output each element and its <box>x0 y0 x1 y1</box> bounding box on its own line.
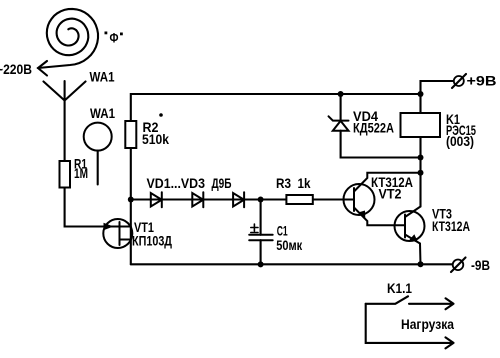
node VD4 top rail <box>338 91 344 97</box>
node VD4 bottom / relay <box>418 155 424 161</box>
sensor plate WA1 <box>84 123 112 151</box>
svg-text:VT2: VT2 <box>379 186 402 202</box>
diode VD1 <box>151 192 162 207</box>
arrow to ~220V <box>38 61 47 76</box>
wire bottom rail -9V <box>131 263 453 265</box>
svg-text:WA1: WA1 <box>90 69 115 85</box>
node A junction R2/diodes/VT1 <box>128 197 134 203</box>
node +9V rail corner <box>418 91 424 97</box>
svg-text:R3: R3 <box>276 175 291 191</box>
contact K1.1 <box>366 296 454 348</box>
svg-text:~220В: ~220В <box>0 61 32 77</box>
transistor VT2 <box>344 173 421 226</box>
wire R1 to VT1 gate <box>65 188 131 227</box>
svg-text:50мк: 50мк <box>276 237 303 253</box>
svg-text:КД522А: КД522А <box>353 120 394 136</box>
coil WA1 field spiral <box>38 9 98 68</box>
transistor VT3 <box>395 207 425 265</box>
wire R2 bottom to node A <box>130 148 132 200</box>
terminal +9V <box>421 74 467 94</box>
node C1 bottom <box>258 261 264 267</box>
transistor VT1 <box>103 219 132 248</box>
svg-text:1М: 1М <box>74 165 88 181</box>
svg-text:КП103Д: КП103Д <box>132 233 172 249</box>
svg-text:КТ312А: КТ312А <box>432 218 470 234</box>
quote marks of Ф label <box>105 32 108 35</box>
diode VD2 <box>192 192 203 207</box>
svg-text:Ф: Ф <box>110 30 119 46</box>
wire VD4 to top rail <box>340 94 342 121</box>
svg-text:+9В: +9В <box>467 73 497 89</box>
svg-text:510k: 510k <box>142 131 169 147</box>
resistor R1 <box>60 161 71 188</box>
svg-text:Нагрузка: Нагрузка <box>401 316 454 332</box>
svg-text:Д9Б: Д9Б <box>212 175 232 191</box>
wire top rail +9V <box>131 94 421 121</box>
svg-text:VD1...VD3: VD1...VD3 <box>147 175 206 191</box>
wire signal line node A to VT2 base <box>131 198 354 200</box>
capacitor C1 <box>249 200 273 265</box>
relay K1 coil <box>401 113 441 137</box>
wire VD4 branch <box>341 131 421 158</box>
wire relay branch vertical <box>419 94 421 207</box>
resistor R3 <box>286 195 312 204</box>
antenna WA1 symbol <box>44 81 86 161</box>
svg-text:WA1: WA1 <box>90 105 115 121</box>
wire below sensor plate <box>97 151 99 185</box>
wire VT1 drain-source vertical <box>130 200 132 265</box>
svg-text:(003): (003) <box>446 133 474 149</box>
asterisk mark of R2 <box>159 113 163 117</box>
node VT3 emitter rail <box>418 261 424 267</box>
svg-text:1k: 1k <box>298 175 311 191</box>
svg-text:-9В: -9В <box>471 257 490 273</box>
resistor R2 <box>125 121 136 148</box>
diode VD4 <box>329 116 349 130</box>
terminal -9V <box>451 258 466 273</box>
node VT2 collector <box>418 170 424 176</box>
svg-text:K1.1: K1.1 <box>387 280 412 296</box>
diode VD3 <box>233 192 244 207</box>
node C1 top <box>258 197 264 203</box>
